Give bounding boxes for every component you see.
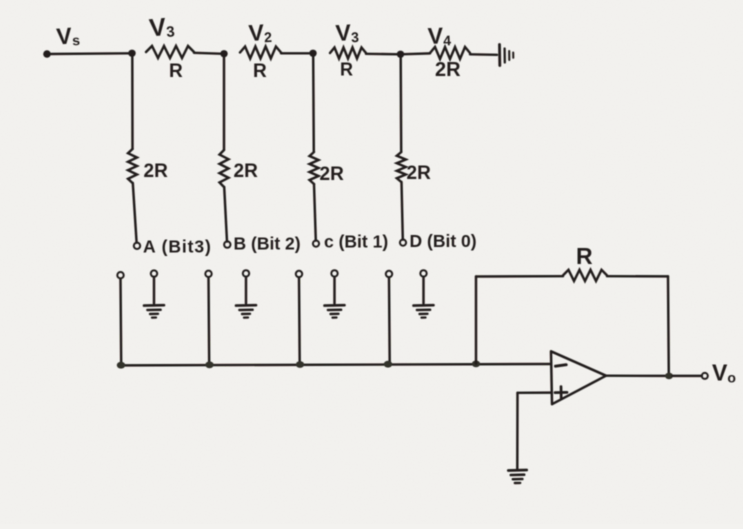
svg-text:2R: 2R <box>320 164 345 185</box>
svg-text:R: R <box>340 60 353 80</box>
svg-text:B (Bit 2): B (Bit 2) <box>234 234 301 254</box>
svg-text:R: R <box>253 61 267 82</box>
svg-text:R: R <box>576 243 593 269</box>
svg-text:2R: 2R <box>144 161 169 182</box>
svg-text:D (Bit 0): D (Bit 0) <box>410 231 477 251</box>
svg-text:A (Bit3): A (Bit3) <box>143 237 212 257</box>
svg-text:2R: 2R <box>234 161 259 182</box>
svg-text:c (Bit 1): c (Bit 1) <box>324 232 388 252</box>
svg-text:2R: 2R <box>407 163 432 184</box>
svg-text:R: R <box>169 61 183 82</box>
svg-text:2R: 2R <box>435 59 461 81</box>
